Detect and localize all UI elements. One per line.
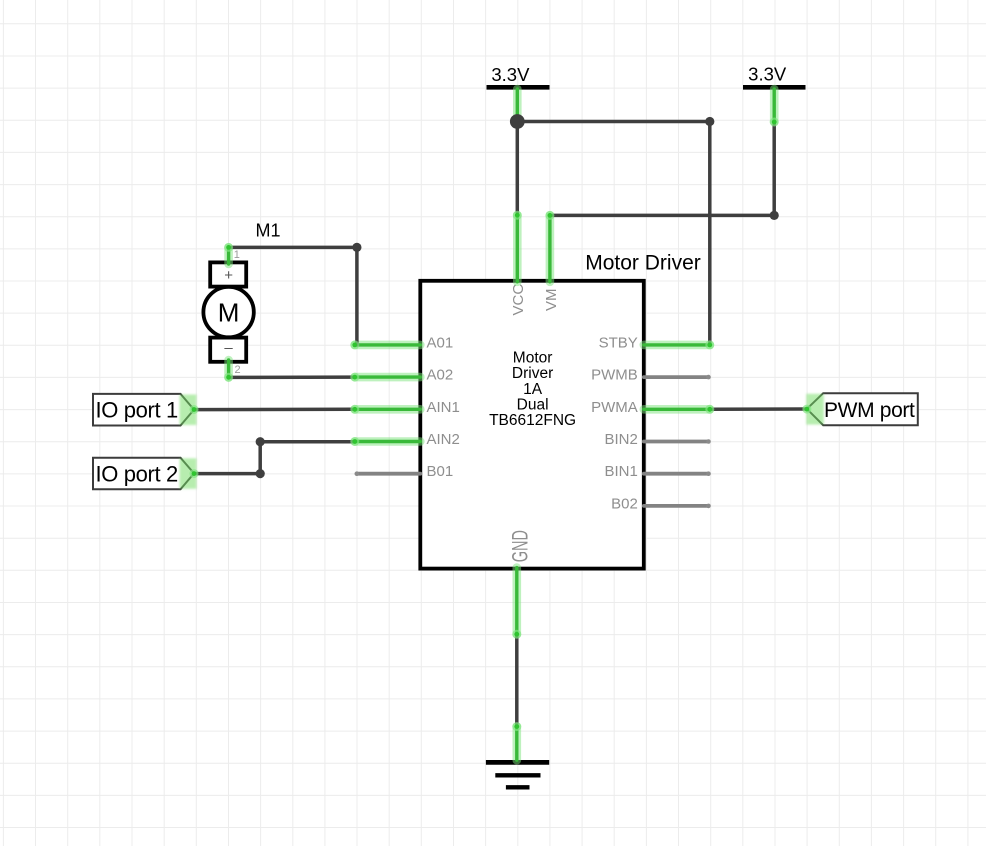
svg-text:1: 1 [234, 249, 240, 261]
motor M1 pin 1 leg (green) [224, 247, 233, 264]
wire: 3.3V right down and left to VM pin [550, 122, 774, 215]
motor M1 top terminal box (+) [210, 262, 246, 286]
svg-text:+: + [224, 267, 233, 284]
pin leg PWMA (connected, green) [644, 405, 710, 414]
connection point IO port 2 tip [190, 469, 199, 478]
pin leg VM (connected, green) [546, 215, 555, 282]
pin leg B02 (unconnected, gray) [644, 504, 711, 509]
connection highlight at IO port 1 tip [180, 395, 197, 426]
motor M1 body circle [203, 287, 253, 337]
connection point VCC [513, 211, 522, 220]
pin leg PWMB (unconnected, gray) [644, 375, 711, 380]
pin leg VCC (connected, green) [513, 215, 522, 282]
svg-text:VCC: VCC [510, 284, 527, 316]
pin leg AIN1 (connected, green) [355, 405, 421, 414]
svg-text:2: 2 [235, 364, 241, 376]
power symbol 3.3V (left) bar [487, 85, 550, 90]
pin leg BIN1 (unconnected, gray) [644, 471, 711, 476]
connection point motor pin1 [224, 243, 233, 252]
motor M1 pin 2 leg (green) [224, 360, 233, 377]
connection point motor pin2 [224, 373, 233, 382]
svg-text:PWM port: PWM port [824, 399, 915, 422]
svg-text:A01: A01 [427, 334, 454, 351]
IC U1 right pin labels [591, 334, 638, 512]
bendpoint IO port 2 upper [256, 437, 265, 446]
bendpoint right 3.3V elbow [770, 211, 779, 220]
pin leg AIN2 (connected, green) [355, 437, 421, 446]
connection point PWM port tip [802, 405, 811, 414]
pin leg B01 (unconnected, gray) [355, 471, 421, 476]
svg-text:BIN1: BIN1 [604, 463, 637, 480]
connection point VM [545, 211, 554, 220]
wire: GND pin to ground symbol [515, 634, 519, 726]
svg-text:GND: GND [508, 530, 533, 562]
svg-text:STBY: STBY [599, 334, 638, 351]
junction node at 3.3V net [510, 114, 525, 129]
svg-text:3.3V: 3.3V [748, 64, 787, 85]
pin leg BIN2 (unconnected, gray) [644, 439, 711, 444]
connection point AIN2 [350, 437, 359, 446]
ground symbol pin leg (green) [512, 727, 521, 761]
IC U1 left pin labels [427, 334, 460, 480]
net label flag IO port 1 [93, 394, 194, 426]
svg-text:BIN2: BIN2 [604, 431, 637, 448]
wire: motor pin1 to A01 [229, 247, 357, 345]
connection point GND [512, 630, 521, 639]
svg-text:Dual: Dual [517, 397, 549, 414]
svg-text:3.3V: 3.3V [491, 64, 530, 85]
svg-text:AIN1: AIN1 [427, 399, 460, 416]
net label flag IO port 2 [93, 458, 194, 490]
connection point PWMA [705, 405, 714, 414]
wire: junction down to VCC pin [516, 122, 520, 216]
pin leg STBY (connected, green) [644, 341, 710, 350]
svg-text:AIN2: AIN2 [427, 431, 460, 448]
wire: IO port 2 to AIN2 [194, 442, 355, 474]
IC U1 TB6612FNG body [420, 281, 644, 569]
wire: IO port 1 to AIN1 [194, 408, 355, 412]
bendpoint motor pin1 elbow [352, 243, 361, 252]
pin leg A01 (connected, green) [355, 341, 421, 350]
svg-text:VM: VM [543, 289, 560, 312]
motor M1 bottom terminal box (-) [210, 338, 246, 362]
wire: 3.3V junction to STBY (via top right) [517, 122, 710, 345]
connection point A02 [350, 373, 359, 382]
connection point A01 [350, 340, 359, 349]
svg-text:Motor: Motor [513, 349, 553, 366]
svg-text:M: M [218, 297, 240, 327]
svg-text:PWMB: PWMB [591, 367, 638, 384]
svg-text:B02: B02 [611, 495, 638, 512]
svg-text:IO port 2: IO port 2 [96, 462, 179, 487]
connection point ground symbol [512, 722, 521, 731]
bendpoint IO port 2 lower [256, 469, 265, 478]
wire: PWMA to PWM port [710, 407, 807, 411]
power symbol right pin leg (green) [770, 89, 779, 122]
svg-text:A02: A02 [427, 367, 454, 384]
pin leg GND (connected, green) [512, 568, 521, 635]
wire: motor pin2 to A02 [229, 375, 355, 379]
svg-text:IO port 1: IO port 1 [96, 398, 179, 423]
bendpoint top-right [705, 117, 714, 126]
connection point 3.3V right [770, 118, 779, 127]
ground symbol [486, 762, 549, 787]
connection point STBY [705, 340, 714, 349]
svg-text:B01: B01 [427, 463, 454, 480]
power symbol left pin leg (green) [513, 89, 522, 122]
svg-text:–: – [224, 340, 233, 357]
connection point IO port 1 tip [190, 405, 199, 414]
svg-text:Motor Driver: Motor Driver [585, 252, 701, 275]
connection highlight at PWM port tip [806, 394, 824, 425]
svg-text:TB6612FNG: TB6612FNG [489, 412, 576, 429]
svg-text:M1: M1 [256, 221, 281, 241]
pin leg A02 (connected, green) [355, 373, 421, 382]
connection point AIN1 [350, 405, 359, 414]
IC U1 center value text [489, 349, 576, 429]
svg-text:1A: 1A [523, 381, 543, 398]
svg-text:PWMA: PWMA [591, 399, 638, 416]
connection highlight at IO port 2 tip [180, 458, 197, 489]
svg-text:Driver: Driver [512, 365, 553, 382]
net label flag PWM port [807, 393, 918, 425]
power symbol 3.3V (right) bar [743, 85, 806, 90]
